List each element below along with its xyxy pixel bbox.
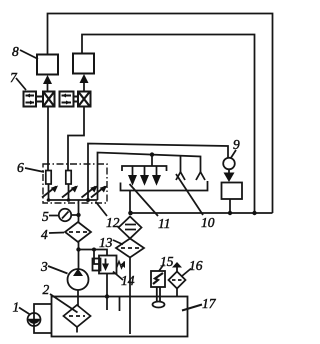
valve 7 unit 2 <box>60 92 91 107</box>
pump suction wire <box>77 290 79 306</box>
svg-text:8: 8 <box>12 44 19 59</box>
svg-text:10: 10 <box>201 215 215 230</box>
wire valve1 to box 6 branch1 <box>47 107 49 171</box>
svg-text:5: 5 <box>42 209 49 224</box>
spray nozzle 2 <box>140 166 149 186</box>
return wire to tank <box>129 258 131 335</box>
lubricated unit 8 left box <box>37 55 58 75</box>
heater 1 loop <box>34 304 52 333</box>
sight-feed element on branch 1 <box>46 171 51 201</box>
branch 4 wire <box>97 164 99 200</box>
feed line A to gauge 9 <box>88 144 228 165</box>
label 17 <box>182 296 217 311</box>
reservoir box 9 <box>222 183 243 200</box>
node on line B <box>150 152 154 156</box>
label 2 <box>43 282 78 313</box>
arrow into left box 8 <box>43 75 52 92</box>
main pressure drop wire <box>76 200 80 222</box>
box 9 drain wire <box>229 199 231 213</box>
relief valve 14 <box>93 256 126 274</box>
breather filter 16 <box>169 262 186 297</box>
pressure gauge 9 <box>223 158 235 170</box>
collector line under block 6 <box>47 198 98 202</box>
svg-text:6: 6 <box>17 160 24 175</box>
throttle 3 <box>82 186 98 198</box>
pump 3 <box>68 269 89 291</box>
label 15 <box>159 254 174 271</box>
throttle 1 <box>42 186 58 198</box>
label 3 <box>40 259 68 274</box>
label 5 <box>42 209 59 224</box>
svg-text:17: 17 <box>202 296 217 311</box>
svg-text:11: 11 <box>158 216 171 231</box>
spray header bar <box>122 166 167 171</box>
node sump drain / return line <box>128 211 133 216</box>
label 16 <box>182 258 203 276</box>
oil distributor block 6 (chain-line enclosure) <box>43 164 107 203</box>
svg-text:1: 1 <box>13 300 20 315</box>
svg-text:12: 12 <box>106 215 120 230</box>
return collector line <box>131 211 273 215</box>
label 9 <box>231 137 241 159</box>
wire filter 4 to pump <box>76 242 80 269</box>
strainer 2 <box>64 305 91 333</box>
label 13 <box>99 235 123 250</box>
wire outer return rail <box>48 14 273 214</box>
svg-text:2: 2 <box>43 282 50 297</box>
valve 7 unit 1 <box>24 92 55 107</box>
wire inner return rail <box>82 35 255 214</box>
svg-text:3: 3 <box>40 259 48 274</box>
spray nozzle 1 <box>128 166 137 186</box>
wire branch to suction arrow 1 <box>180 156 182 172</box>
label 14 <box>113 272 135 289</box>
tank 17 <box>52 297 188 337</box>
sump drain drop <box>129 191 131 214</box>
label 1 <box>13 300 31 315</box>
cooler <box>119 217 142 239</box>
svg-text:9: 9 <box>233 137 240 152</box>
label 11 <box>130 184 171 231</box>
sight-feed element on branch 2 <box>66 171 71 201</box>
arrow into right box 8 <box>80 74 89 91</box>
sump tray bracket <box>121 181 208 191</box>
suction arrow 2 <box>196 172 205 180</box>
wire node to spray bar <box>151 155 153 166</box>
label 4 <box>41 227 64 242</box>
level gauge 15 <box>151 271 165 308</box>
label 12 <box>96 202 120 231</box>
arrow gauge 9 to box <box>224 169 235 182</box>
filter 13 <box>116 239 144 258</box>
svg-text:13: 13 <box>99 235 113 250</box>
branch 3 wire <box>87 164 89 200</box>
feed line B to spray header <box>98 153 201 173</box>
filter 4 <box>65 222 91 242</box>
svg-text:4: 4 <box>41 227 48 242</box>
valve 14 drain wire <box>105 274 109 311</box>
label 10 <box>176 174 215 230</box>
svg-text:16: 16 <box>189 258 203 273</box>
svg-text:14: 14 <box>121 273 135 288</box>
tank stub <box>119 297 121 311</box>
svg-text:7: 7 <box>10 70 18 85</box>
throttle 2 <box>62 186 78 198</box>
heater 1 <box>28 313 41 326</box>
throttle 4 <box>91 186 107 198</box>
spray nozzle 3 <box>152 166 161 186</box>
wire valve2 to box 6 branch2 <box>68 107 84 171</box>
label 8 <box>12 44 38 59</box>
pressure gauge 5 <box>59 209 79 221</box>
lubricated unit 8 right box <box>73 54 94 74</box>
suction arrow 1 <box>176 172 185 180</box>
pilot line to relief valve 14 <box>79 248 108 265</box>
label 6 <box>17 160 44 175</box>
label 7 <box>10 70 26 90</box>
